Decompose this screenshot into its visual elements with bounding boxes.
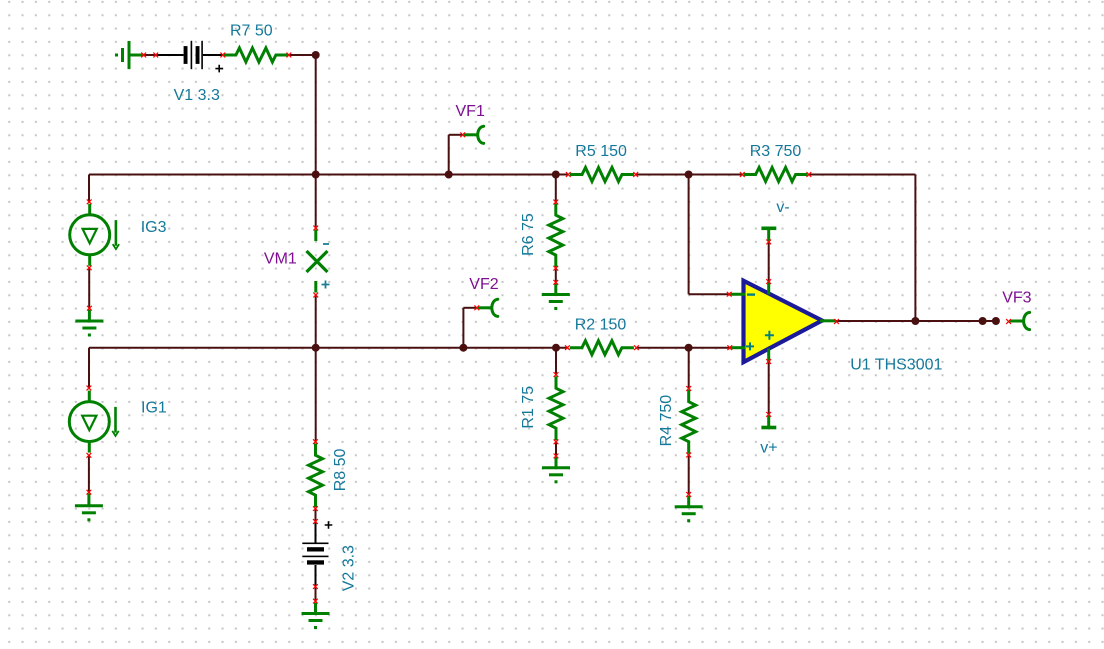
svg-text:R6 75: R6 75 bbox=[520, 213, 537, 256]
pin x VF3 bbox=[1006, 319, 1011, 324]
current source IG1 bbox=[69, 391, 118, 453]
battery V2 bbox=[302, 543, 328, 565]
resistor R8 bbox=[309, 443, 323, 507]
svg-text:R8 50: R8 50 bbox=[332, 449, 349, 492]
op-amp bottom power stub bbox=[767, 349, 770, 363]
pin x IG3 gnd bbox=[87, 306, 92, 311]
ground under R6 bbox=[542, 283, 570, 309]
label VF2 bbox=[469, 276, 498, 293]
pin x v- bottom bbox=[766, 279, 771, 284]
pin x V1-R7 bbox=[220, 53, 225, 58]
pin x gnd-V1 a bbox=[141, 53, 146, 58]
wire R6 top bbox=[555, 175, 557, 203]
op-amp plus input symbol bbox=[746, 342, 754, 350]
voltmeter VM1 bbox=[307, 230, 328, 293]
svg-text:IG1: IG1 bbox=[141, 399, 167, 416]
pin x VM1 top bbox=[313, 226, 318, 231]
wire V2 to ground bbox=[315, 565, 317, 601]
svg-text:R2 150: R2 150 bbox=[575, 317, 627, 334]
pin x IG1 top bbox=[87, 386, 92, 391]
wire bottom net horizontal left bbox=[89, 347, 567, 349]
label R7 value bbox=[230, 23, 273, 40]
wire left vertical bottom net to IG1 bbox=[88, 348, 90, 388]
op-amp internal plus symbol bbox=[765, 331, 774, 340]
wire top net horizontal middle bbox=[636, 174, 743, 176]
VM1 minus mark bbox=[323, 243, 329, 245]
svg-text:VF2: VF2 bbox=[469, 276, 498, 293]
wire feedback node down to op-amp minus bbox=[689, 175, 730, 295]
wire R8 to V2 bbox=[315, 509, 317, 543]
wire output net bbox=[836, 320, 996, 322]
junction top battery node bbox=[312, 51, 320, 59]
op-amp output stub bbox=[820, 319, 836, 322]
label R2 value bbox=[575, 317, 627, 334]
op-amp U1 triangle bbox=[744, 281, 823, 362]
svg-text:R3 750: R3 750 bbox=[750, 143, 802, 160]
resistor R7 bbox=[224, 48, 288, 62]
label v- bbox=[776, 199, 789, 216]
pin x R3 right bbox=[807, 172, 812, 177]
label R5 value bbox=[575, 143, 627, 160]
pin x R6 top bbox=[553, 200, 558, 205]
battery V1 bbox=[184, 41, 203, 69]
ground under IG1 bbox=[75, 494, 103, 520]
probe VF1 bbox=[464, 126, 484, 143]
svg-text:v-: v- bbox=[776, 199, 789, 216]
label VF3 bbox=[1002, 289, 1031, 306]
label R4 value bbox=[658, 395, 675, 447]
resistor R5 bbox=[570, 168, 634, 182]
junction VM1/R8 bottom node bbox=[312, 344, 320, 352]
wire VM1 bottom to R8 top bbox=[315, 295, 317, 442]
ground under V2 bbox=[302, 603, 330, 628]
wire R7 to top junction bbox=[289, 54, 316, 56]
label V2 value bbox=[340, 545, 357, 591]
wire R4 bottom to ground bbox=[688, 455, 690, 495]
resistor R3 bbox=[744, 168, 808, 182]
wire vertical battery junction to VM1 top bbox=[315, 55, 317, 228]
pin x R5 right bbox=[633, 172, 638, 177]
pin x VF1 bbox=[460, 132, 465, 137]
pin x IG3 top bbox=[87, 199, 92, 204]
junction output node bbox=[911, 317, 919, 325]
pin x gnd-V1 b bbox=[153, 53, 158, 58]
ground under IG3 bbox=[75, 310, 103, 336]
svg-text:R5 150: R5 150 bbox=[575, 143, 627, 160]
ground GND1 (V1 negative, rotated left) bbox=[117, 41, 144, 69]
svg-text:IG3: IG3 bbox=[141, 219, 167, 236]
pin x R4 gnd bbox=[686, 492, 691, 497]
wire R1 bottom to ground bbox=[555, 442, 557, 456]
pin x R6 gnd bbox=[553, 280, 558, 285]
pin x IG3 bottom bbox=[87, 265, 92, 270]
pin x R8 bottom bbox=[313, 506, 318, 511]
pin x R5 left bbox=[566, 172, 571, 177]
label R6 value bbox=[520, 213, 537, 256]
pin x V2 top bbox=[313, 519, 318, 524]
probe VF2 bbox=[478, 299, 498, 316]
pin x R3 left bbox=[740, 172, 745, 177]
wire right vertical R3-output bbox=[914, 175, 916, 322]
resistor R4 bbox=[682, 390, 696, 454]
ground under R1 bbox=[542, 457, 570, 482]
op-amp minus input stub bbox=[729, 293, 745, 296]
label VF1 bbox=[456, 103, 485, 120]
pin x VF2 bbox=[474, 305, 479, 310]
wire bottom net horizontal right bbox=[636, 347, 729, 349]
op-amp top power stub bbox=[767, 282, 770, 295]
pin x R4 bottom bbox=[686, 453, 691, 458]
wire left vertical top net to IG3 bbox=[88, 175, 90, 202]
pin x R2 left bbox=[565, 345, 570, 350]
svg-text:R7 50: R7 50 bbox=[230, 23, 273, 40]
pin x R8 top bbox=[313, 439, 318, 444]
svg-text:R1 75: R1 75 bbox=[520, 386, 537, 429]
pin x V2 gnd bbox=[313, 599, 318, 604]
wire R1 top bbox=[555, 348, 557, 375]
label U1 THS3001 bbox=[850, 357, 942, 374]
wire v- supply bbox=[768, 242, 770, 282]
label IG1 bbox=[141, 399, 167, 416]
svg-text:v+: v+ bbox=[760, 440, 777, 457]
pin x v+ bottom bbox=[766, 412, 771, 417]
pin x op-amp output bbox=[834, 319, 839, 324]
pin x V2 bottom bbox=[313, 584, 318, 589]
svg-text:V2 3.3: V2 3.3 bbox=[340, 545, 357, 591]
pin x R2 right bbox=[634, 345, 639, 350]
pin x IG1 gnd bbox=[87, 490, 92, 495]
pin x VM1 bottom bbox=[313, 293, 318, 298]
pin x R6 bottom bbox=[553, 266, 558, 271]
wire top net R3 right to corner bbox=[809, 174, 916, 176]
wire top net horizontal left bbox=[89, 174, 568, 176]
ground under R4 bbox=[675, 496, 703, 521]
pin x R1 top bbox=[554, 372, 559, 377]
junction top net at x=316 bbox=[312, 171, 320, 179]
junction output dot b bbox=[992, 317, 1000, 325]
label V1 value bbox=[174, 87, 220, 104]
wire R6 bottom to ground bbox=[555, 268, 557, 282]
wire VF2 stub bbox=[463, 308, 476, 348]
label IG3 bbox=[141, 219, 167, 236]
pin x v- top bbox=[766, 240, 771, 245]
battery V1 plus mark bbox=[215, 65, 223, 73]
junction feedback node bbox=[685, 171, 693, 179]
v+ supply bar bbox=[761, 416, 776, 428]
wire IG3 to ground bbox=[88, 268, 90, 308]
svg-text:R4 750: R4 750 bbox=[658, 395, 675, 447]
label VM1 bbox=[264, 251, 297, 268]
svg-text:VF1: VF1 bbox=[456, 103, 485, 120]
pin x v+ top bbox=[766, 359, 771, 364]
pin x IG1 bottom bbox=[87, 453, 92, 458]
pin x R7 right bbox=[287, 53, 292, 58]
junction output dot a bbox=[979, 317, 987, 325]
label R1 value bbox=[520, 386, 537, 429]
pin x R4 top bbox=[686, 386, 691, 391]
op-amp plus input stub bbox=[730, 346, 746, 349]
label R8 value bbox=[332, 449, 349, 492]
resistor R6 bbox=[549, 203, 563, 267]
current source IG3 bbox=[70, 204, 119, 266]
wire IG1 to ground bbox=[88, 455, 90, 492]
resistor R2 bbox=[570, 341, 634, 355]
op-amp minus symbol bbox=[747, 293, 755, 295]
pin x op-amp minus bbox=[727, 292, 732, 297]
pin x R1 bottom bbox=[554, 439, 559, 444]
probe VF3 bbox=[1010, 312, 1030, 329]
label R3 value bbox=[750, 143, 802, 160]
svg-text:VF3: VF3 bbox=[1002, 289, 1031, 306]
wire v+ supply bbox=[768, 362, 770, 415]
v- supply bar bbox=[761, 228, 776, 241]
svg-text:U1 THS3001: U1 THS3001 bbox=[850, 357, 942, 374]
junction R2/R4 node bbox=[685, 344, 693, 352]
wire ground-to-battery V1 bbox=[142, 54, 223, 56]
svg-text:V1 3.3: V1 3.3 bbox=[174, 87, 220, 104]
junction R1/R2 node bbox=[552, 344, 560, 352]
junction R5/R6 node bbox=[552, 171, 560, 179]
junction VF2 node bbox=[459, 344, 467, 352]
junction VF1 node bbox=[445, 171, 453, 179]
wire R4 top bbox=[688, 348, 690, 389]
wire VF1 stub bbox=[449, 135, 463, 175]
resistor R1 bbox=[549, 376, 563, 440]
pin x R1 gnd bbox=[554, 454, 559, 459]
battery V2 plus mark bbox=[325, 521, 333, 529]
VM1 plus mark bbox=[322, 281, 330, 289]
label v+ bbox=[760, 440, 777, 457]
pin x op-amp plus bbox=[727, 345, 732, 350]
svg-text:VM1: VM1 bbox=[264, 251, 297, 268]
